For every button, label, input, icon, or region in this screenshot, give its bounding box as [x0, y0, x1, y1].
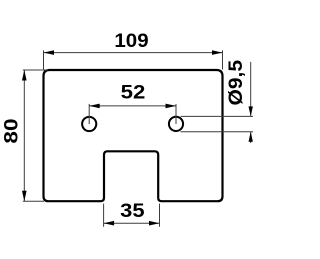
- dimension 80: extension line bottom: [23, 200, 44, 202]
- dimension 35: extension line left: [103, 204, 105, 227]
- svg-text:35: 35: [120, 201, 145, 222]
- svg-text:Ø9,5: Ø9,5: [226, 59, 247, 105]
- part outline (plate with bottom notch): [44, 70, 223, 201]
- hole left: [82, 117, 96, 131]
- dimension 80: arrow top: [22, 70, 27, 81]
- dimension 80: dimension line: [23, 70, 25, 201]
- dimension 80: arrow bottom: [22, 191, 27, 202]
- dimension diameter 9,5: arrow down: [249, 106, 253, 116]
- dimension 109: arrow left: [44, 50, 55, 55]
- dimension diameter 9,5: dimension line lower segment: [250, 132, 252, 143]
- dimension 109: extension line right: [222, 50, 224, 69]
- dimension 35: extension line right: [159, 204, 161, 227]
- svg-text:52: 52: [121, 83, 146, 104]
- dimension 52: extension line right (to hole centre): [175, 104, 177, 124]
- svg-text:80: 80: [2, 118, 23, 143]
- dimension 52: arrow left: [89, 104, 100, 109]
- dimension 109: extension line left: [43, 50, 45, 69]
- dimension 80: extension line top: [23, 69, 48, 71]
- dimension 52: extension line left (to hole centre): [88, 104, 90, 124]
- dimension 35: arrow left: [104, 221, 115, 226]
- dimension 35: dimension line: [104, 222, 160, 224]
- dimension 109: dimension line: [44, 52, 223, 54]
- dimension diameter 9,5: arrow up: [249, 132, 253, 142]
- dimension 52: arrow right: [166, 104, 177, 109]
- dimension diameter 9,5: dimension line upper segment: [250, 62, 252, 117]
- dimension 35: arrow right: [149, 221, 160, 226]
- dimension diameter 9,5: extension line top tangent: [181, 115, 254, 117]
- dimension diameter 9,5: extension line bottom tangent: [181, 131, 254, 133]
- hole right: [169, 117, 183, 131]
- svg-text:109: 109: [114, 31, 148, 52]
- dimension 52: dimension line: [89, 105, 176, 107]
- dimension 109: arrow right: [212, 50, 223, 55]
